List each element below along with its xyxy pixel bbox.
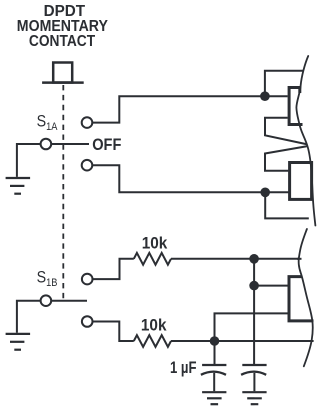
- ground under C1: [202, 392, 226, 404]
- pushbutton actuator bar: [42, 81, 84, 84]
- switch S1A bottom throw contact: [82, 160, 93, 171]
- wire stub through break at resistor top row: [297, 258, 302, 260]
- wire junction down to capacitor C2: [253, 286, 255, 364]
- svg-text:OFF: OFF: [92, 136, 121, 154]
- node junction top: [260, 91, 270, 101]
- wire junction down to break: [265, 192, 309, 218]
- node junction C1: [210, 336, 220, 346]
- component box lower right 3: [289, 277, 314, 321]
- ground under S1A: [6, 178, 31, 194]
- wire S1B pole stub: [51, 300, 87, 302]
- switch S1A pole contact: [41, 139, 52, 150]
- svg-text:S1A: S1A: [37, 112, 58, 133]
- capacitor C1 top plate: [202, 364, 226, 366]
- wire stub through break at bottom row: [309, 340, 314, 342]
- wire S1B top throw to resistor: [92, 259, 134, 279]
- svg-text:CONTACT: CONTACT: [29, 32, 95, 50]
- wire junction up to break: [265, 71, 312, 97]
- wire junction down to capacitor C1: [214, 341, 216, 364]
- resistor R bottom 10k: [134, 335, 171, 347]
- resistor R top 10k: [134, 253, 171, 265]
- switch S1B top throw contact: [82, 274, 93, 285]
- switch S1B bottom throw contact: [82, 316, 93, 327]
- node junction second: [260, 188, 270, 198]
- capacitor C2 curved plate: [241, 372, 266, 375]
- capacitor C2 top plate: [242, 364, 266, 366]
- component box upper right 2: [290, 163, 312, 200]
- capacitor C1 lead: [213, 373, 215, 391]
- svg-text:S1B: S1B: [37, 269, 58, 290]
- svg-text:10k: 10k: [141, 317, 167, 335]
- switch S1A top throw contact: [82, 117, 93, 128]
- dashed mechanical linkage line: [62, 85, 64, 300]
- switch S1B pole contact: [41, 295, 52, 306]
- zigzag upper clipped shape: [265, 118, 308, 145]
- zigzag lower clipped shape: [265, 146, 309, 171]
- break curve top: [296, 56, 315, 226]
- svg-text:1 µF: 1 µF: [170, 360, 197, 378]
- wire junction up to box 3: [215, 313, 288, 341]
- wire S1A pole off-stub: [51, 143, 89, 145]
- break curve bottom: [299, 229, 313, 366]
- wire resistor bottom to break: [171, 340, 318, 342]
- component box upper right 1: [289, 88, 302, 125]
- node junction R1: [249, 254, 259, 264]
- capacitor C2 lead: [253, 373, 255, 391]
- wire S1A pole to ground: [17, 144, 41, 177]
- wire S1A top throw to right block: [92, 96, 288, 122]
- wire S1A bottom throw to right block: [92, 165, 289, 192]
- pushbutton cap square: [53, 63, 72, 83]
- capacitor C1 curved plate: [201, 372, 226, 375]
- ground under C2: [242, 392, 266, 404]
- wire S1B bottom throw to resistor: [92, 322, 134, 342]
- wire resistor top to break: [171, 258, 308, 260]
- wire junction to box 3: [254, 285, 289, 287]
- wire junction down: [253, 259, 255, 286]
- node junction R2: [249, 281, 259, 291]
- svg-text:10k: 10k: [142, 235, 168, 253]
- ground under S1B: [6, 334, 31, 350]
- wire S1B pole to ground: [17, 301, 41, 333]
